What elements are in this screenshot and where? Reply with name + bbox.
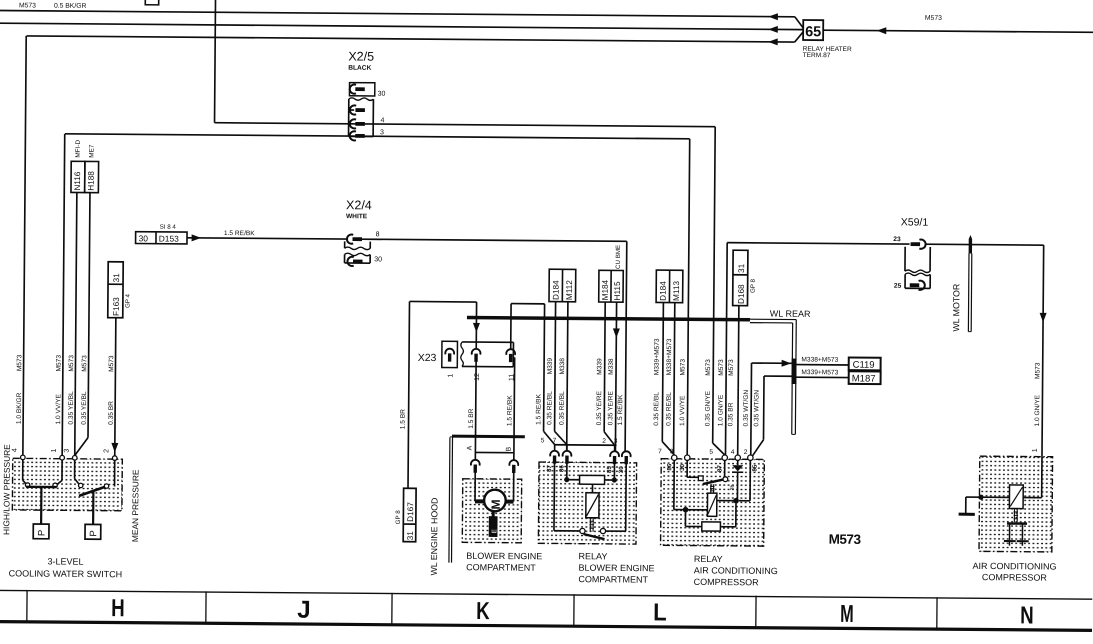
svg-text:A: A <box>467 445 474 450</box>
switch contact circle d <box>104 484 108 488</box>
AC relay coil rect <box>707 493 716 516</box>
svg-text:M573: M573 <box>728 359 735 376</box>
svg-text:BLOWER ENGINE: BLOWER ENGINE <box>466 551 542 562</box>
svg-text:MFI-D: MFI-D <box>75 139 82 157</box>
wire B into motor <box>513 473 515 502</box>
grid divider 3 <box>391 593 393 625</box>
svg-text:M573: M573 <box>68 355 75 372</box>
relay wire contact to 30 <box>606 530 626 532</box>
svg-text:WL ENGINE HOOD: WL ENGINE HOOD <box>429 498 440 576</box>
svg-text:ME7: ME7 <box>88 144 95 158</box>
wire switch pin 4 (1.0 BK/GR M573) <box>23 36 26 455</box>
AC relay wire resistor to dotB <box>720 526 735 528</box>
compressor coil to ground <box>981 496 1009 498</box>
wire A into motor <box>474 472 476 501</box>
svg-text:F163: F163 <box>112 297 121 316</box>
svg-text:X2/4: X2/4 <box>346 198 372 212</box>
svg-text:N: N <box>1020 602 1034 629</box>
connector X59/1 pin 25 plug <box>919 281 925 290</box>
svg-text:86: 86 <box>558 465 565 472</box>
svg-text:H188: H188 <box>87 171 96 191</box>
connector X2/5 pin top plug <box>350 105 356 114</box>
connector X23 pin 11 plug <box>506 349 515 355</box>
svg-text:M184: M184 <box>601 279 610 300</box>
connector X23 pin 1 plug <box>445 349 454 355</box>
svg-text:0.35 YE/RE: 0.35 YE/RE <box>607 390 614 425</box>
svg-text:D167: D167 <box>406 502 415 522</box>
svg-text:1.0 GN/YE: 1.0 GN/YE <box>717 394 724 426</box>
svg-text:0.35 BR: 0.35 BR <box>727 402 734 426</box>
svg-text:TERM.87: TERM.87 <box>803 52 831 59</box>
svg-text:WL MOTOR: WL MOTOR <box>951 284 961 332</box>
svg-text:M113: M113 <box>672 281 681 301</box>
svg-text:3b: 3b <box>730 484 736 490</box>
arrow on wire 1 <box>768 13 778 20</box>
svg-text:COOLING WATER SWITCH: COOLING WATER SWITCH <box>9 568 123 579</box>
svg-text:MEAN PRESSURE: MEAN PRESSURE <box>130 469 141 542</box>
svg-text:2: 2 <box>602 438 606 445</box>
relay wire 85 to coil node <box>613 463 615 480</box>
svg-text:4: 4 <box>731 449 735 456</box>
svg-text:1.5 RE/BK: 1.5 RE/BK <box>506 395 513 426</box>
svg-text:3: 3 <box>614 438 618 445</box>
svg-text:E: E <box>491 528 498 533</box>
arrow on M573 right wire <box>877 27 887 34</box>
svg-text:N116: N116 <box>73 171 82 190</box>
svg-text:7: 7 <box>658 448 662 455</box>
svg-text:3: 3 <box>64 449 71 453</box>
wire H115 to bus <box>615 302 617 318</box>
svg-text:1.0 BK/GR: 1.0 BK/GR <box>16 392 23 424</box>
relay plug rail (left) <box>554 444 616 447</box>
relay plug 87 <box>550 451 559 457</box>
wire D184 to bus (drops as 0.35 RE/BL M339) <box>554 302 556 318</box>
svg-text:B: B <box>506 446 513 451</box>
connector stub box at top edge <box>145 0 158 5</box>
blower plug A <box>471 460 480 466</box>
switch terminal circle pin 3 <box>72 455 77 460</box>
wire 1.0 GN/YE M573 (straight to 87) <box>725 243 727 455</box>
arrow on wire 2 <box>768 26 778 33</box>
wl rear double line horizontal <box>750 318 796 320</box>
wl engine hood double line <box>449 437 450 562</box>
svg-text:M573: M573 <box>108 355 115 372</box>
blower plug housing line <box>475 451 514 453</box>
svg-text:30: 30 <box>374 256 382 263</box>
wl rear double line vertical <box>791 323 794 434</box>
connector X2/4 pin 30 plug <box>347 257 353 266</box>
svg-text:M339: M339 <box>547 358 554 375</box>
arrow on compressor wire <box>1040 313 1047 323</box>
grid divider 6 <box>936 597 938 629</box>
relay coil (armature) rect <box>591 484 593 493</box>
svg-text:M112: M112 <box>565 280 574 300</box>
svg-text:31: 31 <box>406 531 415 541</box>
compressor clutch <box>1007 522 1027 525</box>
relay moving contact <box>583 534 604 539</box>
bus WL REAR (thick) <box>467 318 750 320</box>
grid divider 5 <box>755 596 757 628</box>
wire X2/4 pin 8 to right (drops to relay 30) <box>362 239 627 241</box>
compressor box (stipple) <box>979 456 1053 552</box>
bus engine-hood bar (thick) <box>452 435 525 439</box>
AC relay wire coil to dotB <box>717 500 736 502</box>
switch contact circle b <box>53 483 57 487</box>
AC relay diode wire <box>737 460 739 465</box>
svg-text:1.5 BR: 1.5 BR <box>400 409 407 429</box>
svg-text:0.35 YE/BL: 0.35 YE/BL <box>81 391 88 425</box>
svg-text:M187: M187 <box>852 373 876 384</box>
wire B: X23 pin 11 to blower B <box>513 357 516 460</box>
svg-text:COMPARTMENT: COMPARTMENT <box>466 562 536 573</box>
svg-text:5: 5 <box>709 449 713 456</box>
relay striped link <box>589 518 591 532</box>
svg-text:0.35 RE/BL: 0.35 RE/BL <box>666 392 673 426</box>
relay heater 65 box U65 <box>803 20 823 40</box>
junction dot 85-node <box>612 477 617 482</box>
svg-text:D184: D184 <box>552 280 561 300</box>
svg-text:1.0 GN/YE: 1.0 GN/YE <box>1034 394 1041 426</box>
motor to ground stub <box>492 510 495 517</box>
terminal boxes D184|M112 <box>549 269 576 302</box>
motor M1 circle <box>484 490 506 512</box>
switch stem to P2 <box>92 491 94 525</box>
blower plug B <box>509 460 518 466</box>
svg-text:C119: C119 <box>853 360 875 371</box>
svg-text:31: 31 <box>737 263 746 273</box>
svg-text:0.35 WT/GN: 0.35 WT/GN <box>743 390 750 427</box>
svg-text:5: 5 <box>541 437 545 444</box>
wire to M187 (M339+M573) <box>764 375 791 377</box>
wire H188 to switch pin 3 (0.35 YE/BL M573) with jog <box>88 193 90 438</box>
svg-text:1.5 RE/BK: 1.5 RE/BK <box>617 394 624 425</box>
wl rear solid segment <box>791 359 796 384</box>
svg-text:WHITE: WHITE <box>346 213 368 220</box>
relay contact circle a <box>580 528 585 533</box>
relay K1 box (stipple) <box>538 462 636 544</box>
blower M box (stipple) <box>462 479 521 543</box>
wl motor double line <box>967 253 970 331</box>
svg-text:0.35 RE/BL: 0.35 RE/BL <box>546 391 553 425</box>
wire 0.35 RE/BL M338+M573 (straight to 86) <box>674 318 675 454</box>
svg-text:P: P <box>37 530 48 536</box>
svg-text:COMPRESSOR: COMPRESSOR <box>982 572 1048 583</box>
wire 1.0 VV/YE M573 (to 30) <box>687 139 690 455</box>
compressor wire in to coil <box>1041 457 1043 498</box>
svg-text:M339+M573: M339+M573 <box>654 338 661 375</box>
arrow on X23 pin12 wire <box>473 323 480 333</box>
svg-text:M573: M573 <box>925 15 942 22</box>
AC relay wire 30 to fixed contact <box>686 460 688 477</box>
ground symbol (compressor) <box>959 513 975 516</box>
switch contact drop from pin 3 <box>74 460 76 478</box>
svg-text:2: 2 <box>744 449 748 456</box>
svg-text:12: 12 <box>474 373 481 381</box>
wire X2/5 pin 4 to right (drops to AC relay 87 area) <box>349 124 715 127</box>
svg-text:M573: M573 <box>829 532 862 547</box>
svg-text:85: 85 <box>606 466 613 473</box>
arrow on F163 wire <box>111 443 118 453</box>
wire 1.5 RE/BK to relay 30 straight <box>625 318 626 451</box>
svg-text:GP 8: GP 8 <box>750 278 757 293</box>
connector X23 housing pin 1 <box>442 341 458 367</box>
svg-text:M338+M573: M338+M573 <box>801 356 838 363</box>
AC relay terminal circle 86 <box>672 455 677 460</box>
svg-text:M338: M338 <box>608 358 615 375</box>
wire vertical from top to X2/5 pin 4 <box>214 0 217 123</box>
ecu boxes N116 / H188 <box>71 161 85 192</box>
wire N116 to switch pin 3 (0.35 YE/BL M573) <box>75 193 77 456</box>
wire 0.35 RE/BL M339+M573 (jog to 86) <box>661 318 664 441</box>
relay plug 86 <box>563 451 572 457</box>
svg-text:M339: M339 <box>596 358 603 375</box>
svg-text:M: M <box>840 601 854 628</box>
AC relay resistor rect <box>702 522 721 531</box>
relay wire 87 to contact <box>553 462 556 530</box>
connector X23 housing pins 12/11 <box>462 341 513 343</box>
svg-text:0.35 GN/YE: 0.35 GN/YE <box>705 390 712 426</box>
svg-text:1.0 VV/YE: 1.0 VV/YE <box>679 395 686 426</box>
svg-text:30: 30 <box>679 463 686 470</box>
svg-text:SI 8 4: SI 8 4 <box>160 224 177 231</box>
svg-text:30: 30 <box>378 91 386 98</box>
arrow on YE/RE M338 wire <box>613 328 620 338</box>
svg-text:M573: M573 <box>718 359 725 376</box>
svg-text:87: 87 <box>717 465 724 472</box>
AC relay wire dotA down to resistor <box>684 512 686 526</box>
junction dot (compressor ground) <box>978 495 983 500</box>
svg-text:D184: D184 <box>659 281 668 301</box>
svg-text:COMPARTMENT: COMPARTMENT <box>578 574 648 585</box>
terminal box M187 <box>849 371 881 384</box>
connector X23 pin 12 plug <box>472 349 481 355</box>
svg-text:0.35 RE/BL: 0.35 RE/BL <box>653 392 660 426</box>
svg-text:X23: X23 <box>418 352 437 364</box>
terminal box 30|D153 <box>136 232 187 244</box>
svg-text:H115: H115 <box>613 281 622 300</box>
wire 0.35 RE/BL M339 to relay 86 (jog) <box>554 317 557 431</box>
svg-text:65: 65 <box>805 24 821 40</box>
svg-text:7: 7 <box>553 437 557 444</box>
svg-text:D153: D153 <box>159 233 179 243</box>
svg-text:CU BME: CU BME <box>615 245 622 269</box>
wire M573 from right into relay 65 <box>823 30 1093 32</box>
switch terminal circle pin 4 <box>21 455 26 460</box>
svg-text:4: 4 <box>12 448 19 452</box>
svg-text:87: 87 <box>546 465 553 472</box>
grid divider 1 <box>26 590 28 622</box>
pressure sensor symbol P1 <box>33 524 49 539</box>
wire to C119 (M338+M573) w/ arrow <box>752 362 792 364</box>
wire switch pin 1 (1.0 VV/YE M573) <box>62 134 65 456</box>
AC relay terminal circle 87 <box>722 455 727 460</box>
pressure sensor symbol P2 <box>85 524 101 539</box>
switch stem to P1 <box>40 487 42 524</box>
compressor striped link <box>1013 509 1015 523</box>
wire A: X23 pin 12 to blower A <box>474 357 477 460</box>
AC relay wire 85 down <box>749 460 751 500</box>
wire 0.35 YE/RE M339 to relay 85 (jog) <box>603 318 606 432</box>
switch S box (stipple) <box>12 458 122 510</box>
switch contact drop from pin 2 <box>114 460 116 486</box>
wire X23 pin 11 up-over (to relay 87 drop) <box>510 304 512 349</box>
svg-text:0.35 RE/BL: 0.35 RE/BL <box>559 391 566 425</box>
junction dot A (AC relay) <box>683 507 689 513</box>
grid band bottom line <box>0 622 1092 631</box>
svg-text:M338: M338 <box>559 358 566 375</box>
svg-text:P: P <box>88 530 99 536</box>
terminal box D168|31 <box>733 250 748 306</box>
svg-text:M573: M573 <box>19 2 36 9</box>
svg-text:M339+M573: M339+M573 <box>801 369 838 376</box>
wire 1.5 BR: D167 up/over to X23 pin 12 <box>408 301 409 488</box>
terminal boxes M184|H115 <box>599 270 624 302</box>
relay contact circle b <box>600 528 605 533</box>
connector X2/5 pin 3 plug <box>350 131 356 140</box>
AC relay striped link <box>710 484 712 493</box>
wire 0.35 GN/YE M573 (jog to 87) <box>713 127 716 443</box>
AC relay wire dotA to coil <box>686 509 708 511</box>
wire M184 to bus <box>604 302 606 318</box>
svg-text:RELAY: RELAY <box>579 551 608 561</box>
svg-text:M: M <box>489 499 503 509</box>
connector X2/5 main housing <box>348 99 350 136</box>
svg-text:0.35 BR: 0.35 BR <box>108 401 115 425</box>
wire M112 to bus (drops as 0.35 RE/BL M338) <box>567 302 569 318</box>
arrow on wire 3 <box>768 38 778 45</box>
connector X2/4 housing 2 <box>344 254 346 263</box>
svg-text:M573: M573 <box>16 354 23 371</box>
svg-text:30: 30 <box>139 233 149 243</box>
svg-text:HIGH/LOW PRESSURE: HIGH/LOW PRESSURE <box>1 444 12 535</box>
switch terminal circle pin 1 <box>60 455 65 460</box>
svg-text:0.35 YE/RE: 0.35 YE/RE <box>596 390 603 425</box>
wire 1.5 RE/BK to X2/4 pin 8 <box>187 238 348 239</box>
AC relay pivot circle <box>723 477 728 482</box>
svg-text:RELAY: RELAY <box>694 554 723 564</box>
wire top feed 3 (to relay heater 65) <box>27 36 795 42</box>
svg-text:J: J <box>297 597 311 624</box>
wire D184(2) to bus <box>662 303 664 319</box>
svg-text:30: 30 <box>618 466 625 473</box>
arrow out of 30|D153 <box>192 234 202 241</box>
wl motor pointer (solid) <box>969 239 973 254</box>
switch moving contact (mean pressure) <box>79 486 106 496</box>
svg-text:M573: M573 <box>1034 362 1041 379</box>
wire 0.35 RE/BL M338 to relay 86 straight <box>567 318 568 451</box>
connector X2/5 pin 30 plug <box>350 85 356 94</box>
svg-text:1.0 VV/YE: 1.0 VV/YE <box>55 393 62 424</box>
svg-text:L: L <box>653 599 667 626</box>
relay resistor/coil rect <box>567 479 580 481</box>
AC relay terminal circle 85 <box>748 455 753 460</box>
svg-text:M338+M573: M338+M573 <box>666 338 673 375</box>
svg-text:1.5 BR: 1.5 BR <box>468 408 475 428</box>
AC relay terminal circle diode <box>735 455 740 460</box>
svg-text:M573: M573 <box>81 355 88 372</box>
connector X59/1 pin 23 plug <box>919 240 925 249</box>
AC relay wire 86 down to dotA <box>673 460 675 509</box>
svg-text:M573: M573 <box>56 355 63 372</box>
AC relay terminal circle 30 <box>685 455 690 460</box>
AC relay diode <box>732 465 743 471</box>
relay K2 box (stipple) <box>661 459 765 547</box>
svg-text:WL REAR: WL REAR <box>770 309 811 319</box>
svg-text:3: 3 <box>380 129 384 136</box>
connector X2/5 pin 4 plug <box>350 119 356 128</box>
svg-text:GP 8: GP 8 <box>395 510 402 525</box>
svg-text:4: 4 <box>381 117 385 124</box>
svg-text:0.35 YE/BL: 0.35 YE/BL <box>68 391 75 425</box>
svg-text:BLOWER ENGINE: BLOWER ENGINE <box>578 563 654 574</box>
connector X59/1 housing 1 <box>904 247 906 271</box>
wire top feed 1 (to relay heater 65) <box>0 10 795 16</box>
AC relay fixed contact square <box>698 476 703 481</box>
relay wire 86 to coil node <box>566 463 568 480</box>
svg-text:0.35 WT/GN: 0.35 WT/GN <box>753 390 760 427</box>
svg-text:AIR CONDITIONING: AIR CONDITIONING <box>694 565 778 576</box>
svg-text:M573: M573 <box>680 359 687 376</box>
connector X2/5 pin 30 housing <box>349 83 374 96</box>
svg-text:M573: M573 <box>705 359 712 376</box>
svg-text:23: 23 <box>893 236 901 243</box>
grid divider 2 <box>205 591 207 623</box>
svg-text:3: 3 <box>670 448 674 455</box>
svg-text:1.5 RE/BK: 1.5 RE/BK <box>535 393 542 424</box>
svg-text:GP 4: GP 4 <box>125 293 132 308</box>
switch contact circle a <box>25 483 29 487</box>
connector X2/5 pin (top, unconnected) stub <box>349 109 354 111</box>
connector X2/4 pin 8 plug <box>347 234 353 243</box>
svg-text:8: 8 <box>376 231 380 238</box>
connector X59/1 housing 2 <box>904 274 906 288</box>
switch contact drop from pin 4 <box>22 460 24 480</box>
svg-text:1: 1 <box>51 448 58 452</box>
junction dot 86-node <box>564 477 569 482</box>
svg-text:2: 2 <box>103 449 110 453</box>
svg-text:K: K <box>476 598 490 625</box>
wire 0.35 BR M573 (to diode terminal) <box>738 319 739 455</box>
svg-text:1.5 RE/BK: 1.5 RE/BK <box>224 230 255 237</box>
junction dot B (AC relay) <box>733 498 739 504</box>
svg-text:0.5 BK/GR: 0.5 BK/GR <box>54 3 87 10</box>
switch contact circle c <box>79 483 83 487</box>
svg-text:AIR CONDITIONING: AIR CONDITIONING <box>972 561 1056 572</box>
switch bridge bar (high/low) <box>26 486 56 489</box>
svg-text:86: 86 <box>666 463 673 470</box>
svg-text:1: 1 <box>1032 448 1039 452</box>
grid divider 4 <box>573 594 575 626</box>
wire X59/1 pin 23 line <box>727 243 909 244</box>
terminal box 31|D167 <box>403 488 416 541</box>
wire top feed 2 (to relay heater 65) <box>0 23 803 29</box>
svg-text:BLACK: BLACK <box>348 65 371 72</box>
wire 1.5 RE/BK to relay 87 (jog) <box>543 317 546 431</box>
switch terminal circle pin 2 <box>112 456 117 461</box>
wire X2/5 pin 3 across (left corner to AC relay 30 drop) <box>65 134 690 139</box>
svg-text:X59/1: X59/1 <box>901 216 929 228</box>
svg-text:31: 31 <box>112 273 121 283</box>
wire 0.35 YE/RE M338 to relay 85 straight <box>615 318 616 451</box>
wire 0.35 WT/GN (straight to 85) <box>750 363 753 455</box>
wire M113 to bus <box>674 303 676 319</box>
compressor coil rect <box>1009 485 1023 509</box>
switch contact drop from pin 1 <box>61 460 63 480</box>
wire 0.35 WT/GN (jog to 85) <box>763 376 766 440</box>
connector X2/4 housing 1 <box>344 241 346 248</box>
svg-text:85: 85 <box>752 464 759 471</box>
ground brush block (blower) <box>489 516 498 537</box>
